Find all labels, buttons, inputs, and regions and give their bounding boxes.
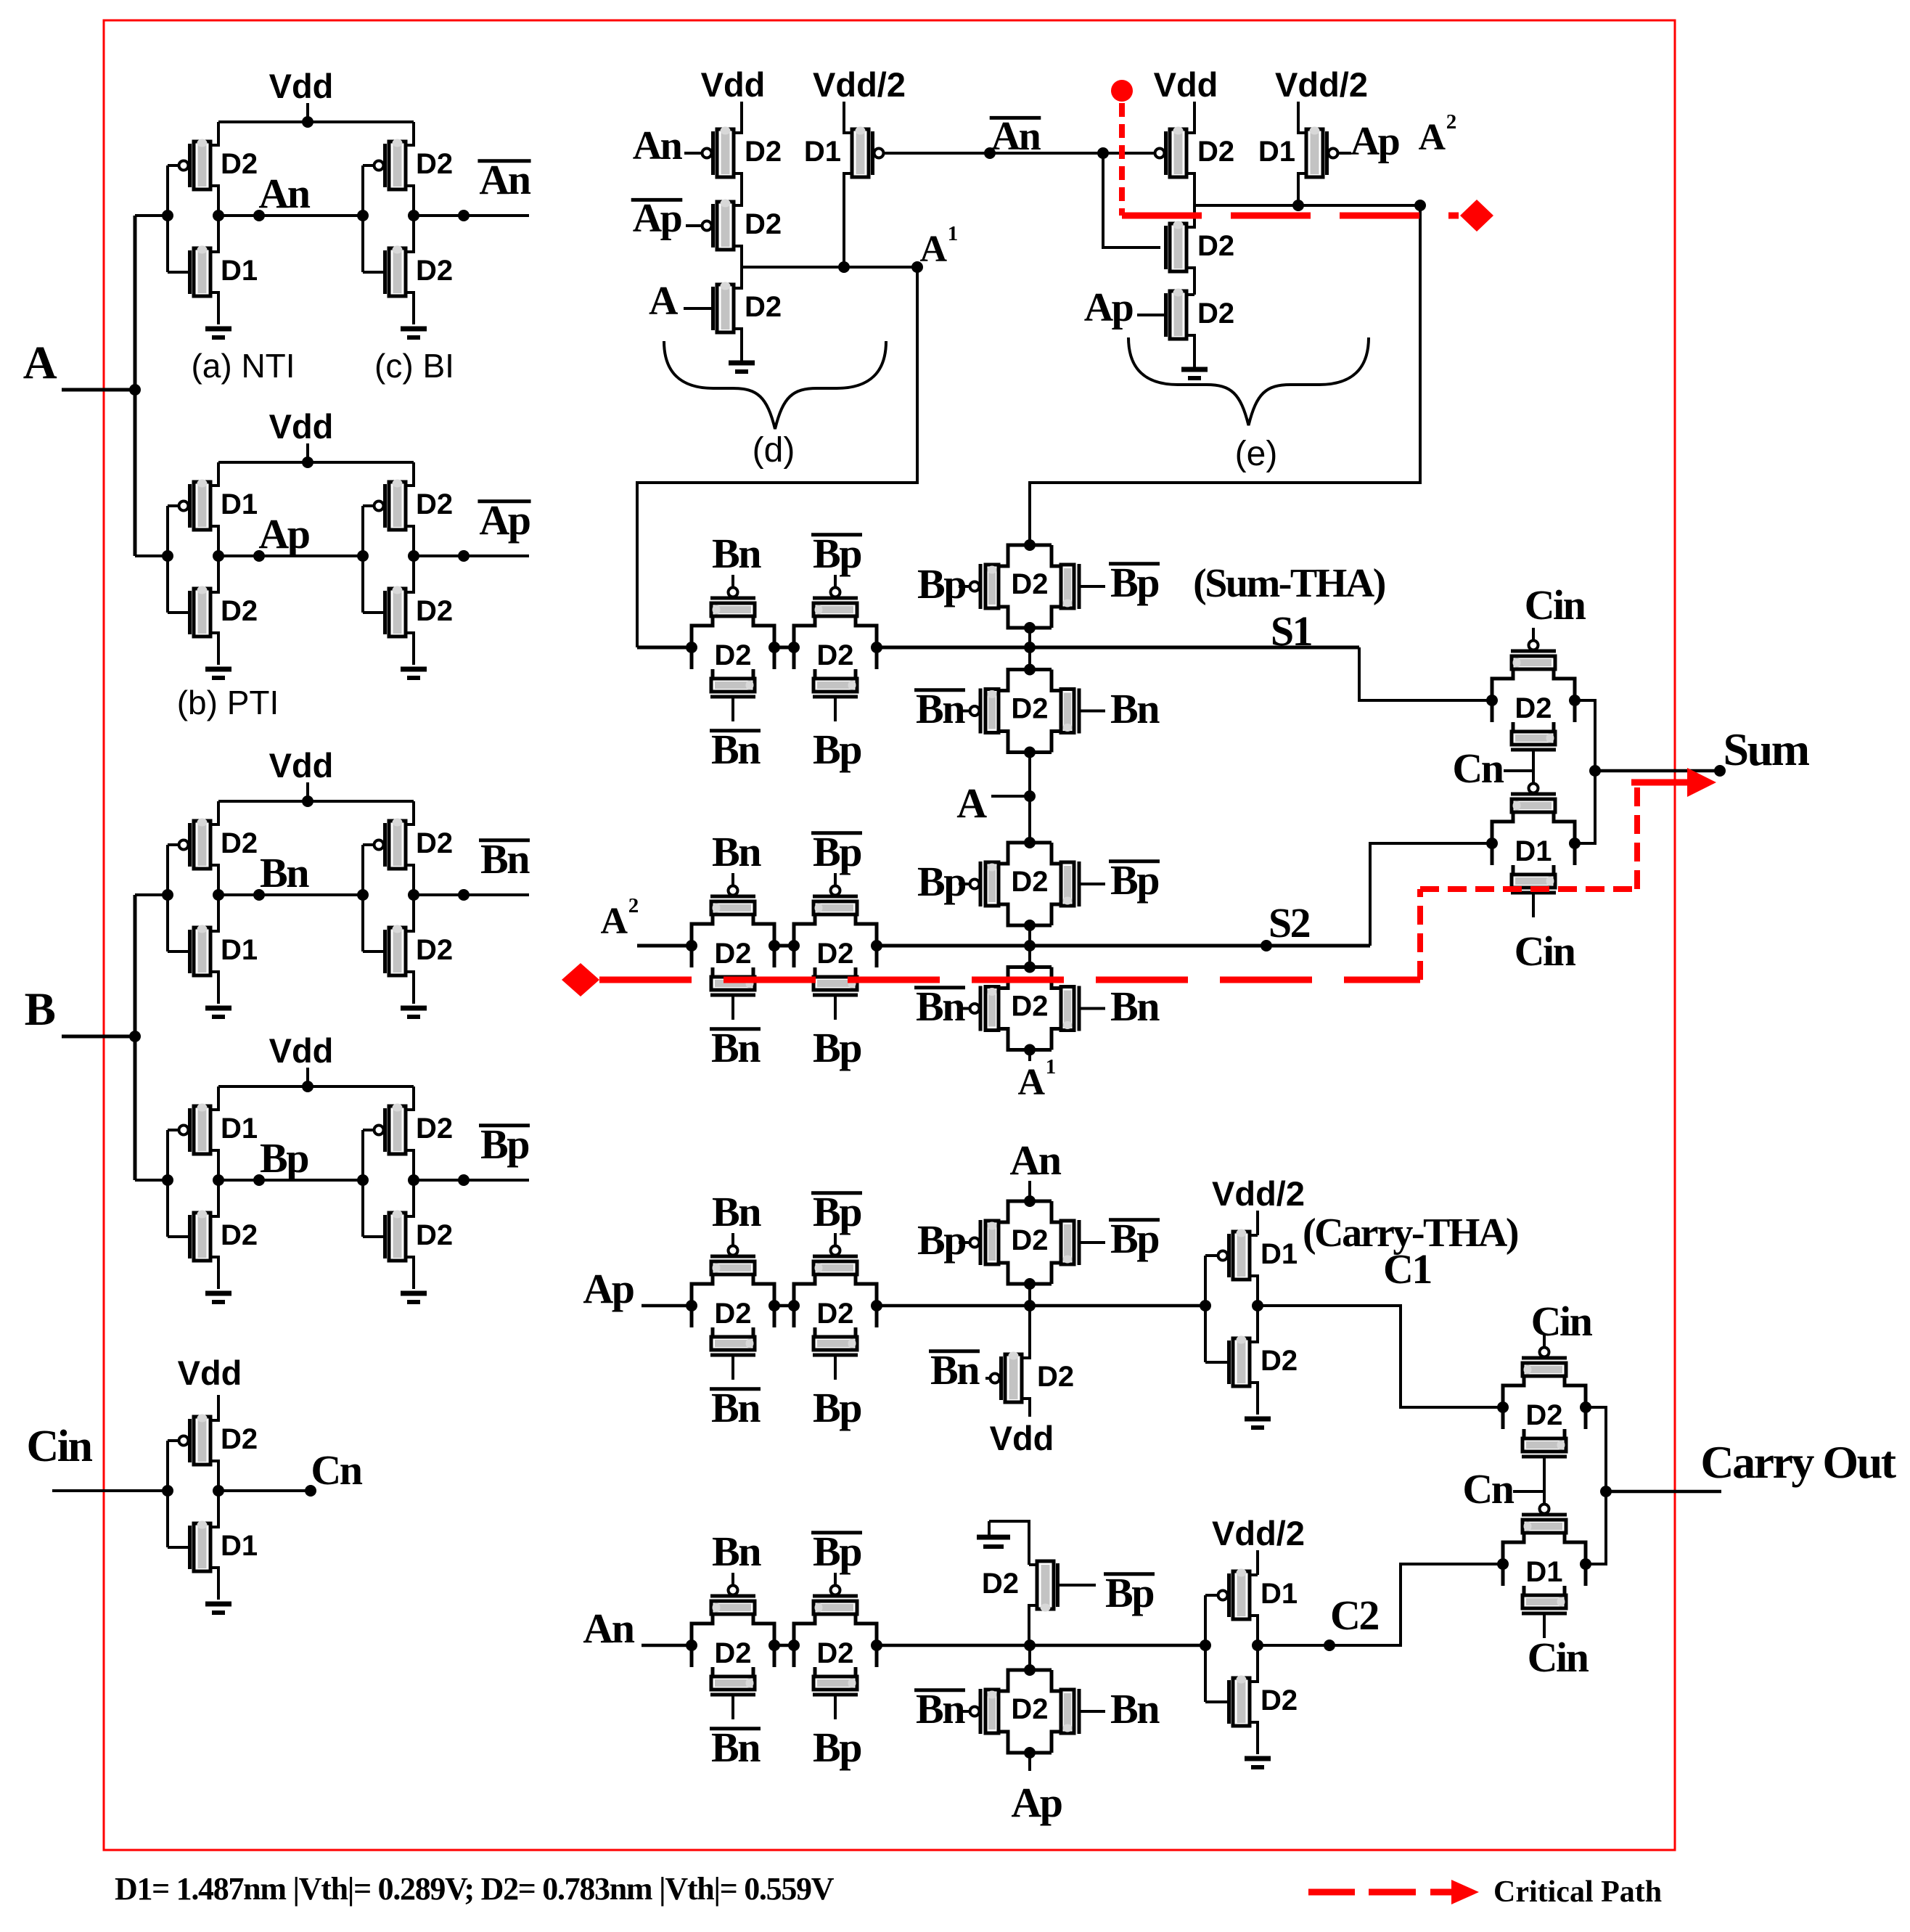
svg-text:Bp: Bp <box>1105 1569 1153 1616</box>
svg-text:(d): (d) <box>753 431 795 470</box>
transistor pMOS D1 section e right <box>1306 129 1323 177</box>
wire gate trunk PTI A right inverter <box>361 506 364 613</box>
svg-text:Bn: Bn <box>1110 685 1160 732</box>
transistor nMOS D1 NTI-BI B left inverter <box>194 928 210 975</box>
transistor pMOS D1 C1 inverter <box>1233 1232 1250 1280</box>
svg-text:D2: D2 <box>745 291 782 323</box>
transistor pMOS D2 NTI-BI B right inverter <box>389 821 406 869</box>
wire gate trunk C1 inverter <box>1204 1256 1207 1362</box>
transmission gate TG2 D2 gates Bp-bar/Bp S1 row <box>794 616 815 669</box>
transmission gate TG4 D2 gates Bp-bar/Bp S2 row <box>794 914 815 967</box>
svg-text:D2: D2 <box>816 1298 853 1330</box>
legend critical path dashes <box>1308 1889 1355 1896</box>
transmission gate TGa D2 gates Bp/Bp-bar vertical <box>999 545 1052 566</box>
svg-text:Bn: Bn <box>260 849 309 896</box>
wire A trunk <box>134 216 137 556</box>
node An <box>218 214 363 217</box>
wire TGg to C1 row <box>1028 1284 1031 1306</box>
transistor nMOS D2 middle section e <box>1170 224 1186 271</box>
wire gate trunk PTI A left inverter <box>166 506 169 613</box>
svg-text:Bp: Bp <box>260 1134 308 1182</box>
ground section d <box>729 361 755 366</box>
svg-text:A: A <box>956 779 987 827</box>
svg-text:C1: C1 <box>1383 1245 1431 1293</box>
svg-text:2: 2 <box>1446 110 1456 134</box>
inverter C2 Vdd/2 <box>1256 1550 1259 1575</box>
svg-text:Ap: Ap <box>258 510 308 557</box>
node Bn output <box>414 893 529 896</box>
power Vdd/2 section d <box>843 102 845 134</box>
transmission gate TG3 D2 gates Bn/Bn-bar S2 row <box>692 914 713 967</box>
svg-text:A: A <box>600 901 628 942</box>
svg-text:Vdd: Vdd <box>269 746 334 785</box>
svg-text:D2: D2 <box>1011 693 1048 725</box>
svg-text:1: 1 <box>1046 1055 1055 1078</box>
svg-text:An: An <box>258 170 310 217</box>
svg-text:D2: D2 <box>1037 1361 1074 1393</box>
wire S1 row <box>637 646 692 650</box>
svg-text:D2: D2 <box>221 1219 258 1251</box>
critical path dashed vertical S2 to Sum jog <box>1417 889 1423 980</box>
wire S1 to Cin TG <box>1359 647 1492 700</box>
critical path dashed vertical from start <box>1119 103 1125 216</box>
svg-text:Bp: Bp <box>917 560 965 607</box>
svg-text:Bp: Bp <box>813 1188 861 1235</box>
svg-text:D2: D2 <box>221 1423 258 1455</box>
svg-text:Ap: Ap <box>633 196 681 241</box>
svg-text:2: 2 <box>628 894 639 917</box>
wire gate trunk Cin inverter <box>166 1441 169 1547</box>
svg-text:Cin: Cin <box>1528 1634 1589 1681</box>
wire gate trunk NTI-BI A left inverter <box>166 165 169 272</box>
transistor pMOS D2 PTI A right inverter <box>389 482 406 530</box>
critical path start dot <box>1111 80 1133 102</box>
svg-text:Cin: Cin <box>27 1422 93 1471</box>
svg-text:(c) BI: (c) BI <box>374 347 454 385</box>
svg-text:Ap: Ap <box>1084 285 1133 330</box>
transistor nMOS D2 PTI B right inverter <box>389 1213 406 1261</box>
svg-text:Bp: Bp <box>813 530 861 577</box>
svg-text:An: An <box>479 156 530 203</box>
svg-text:Bp: Bp <box>813 828 861 875</box>
ground NTI-BI A right inverter <box>401 327 427 332</box>
wire Vdd rail NTI-BI B <box>218 800 414 803</box>
wire TGd to A1 <box>1028 1050 1031 1062</box>
svg-text:Bn: Bn <box>711 1024 761 1071</box>
svg-text:D2: D2 <box>1525 1399 1562 1431</box>
svg-text:D2: D2 <box>745 136 782 168</box>
wire An to TGg <box>1028 1181 1031 1201</box>
wire gate trunk NTI-BI B right inverter <box>361 845 364 951</box>
transistor nMOS D2 PTI B left inverter <box>194 1213 210 1261</box>
node Bn <box>218 893 363 896</box>
wire ground to transistor <box>989 1521 1029 1565</box>
power Vdd PTI A <box>306 443 309 462</box>
svg-text:Bp: Bp <box>1110 856 1158 904</box>
svg-text:Vdd: Vdd <box>269 67 334 105</box>
svg-text:Vdd: Vdd <box>701 65 766 104</box>
transmission gate TGi D2 gate Cin Carry output <box>1503 1376 1524 1429</box>
svg-text:Bn: Bn <box>1110 1685 1160 1732</box>
transmission gate TGf D1 gate Cn/Cin Sum output <box>1492 812 1513 865</box>
svg-text:A: A <box>649 279 679 324</box>
svg-text:Vdd/2: Vdd/2 <box>1275 65 1368 104</box>
svg-text:D2: D2 <box>1011 866 1048 898</box>
ground NTI-BI B right inverter <box>401 1006 427 1011</box>
svg-text:D2: D2 <box>416 1219 453 1251</box>
transistor nMOS D2 PTI A right inverter <box>389 589 406 637</box>
wire Vdd rail PTI A <box>218 461 414 464</box>
wire An-bar branch to lower gate <box>1103 153 1160 247</box>
transistor nMOS D2 gate Ap section e <box>1170 291 1186 339</box>
svg-text:Cin: Cin <box>1515 928 1576 975</box>
svg-text:B: B <box>25 983 55 1036</box>
svg-text:Bp: Bp <box>813 1724 861 1771</box>
transmission gate TGg D2 gates Bp/Bp-bar vertical Carry <box>999 1201 1052 1222</box>
svg-text:(e): (e) <box>1235 435 1278 473</box>
svg-text:C2: C2 <box>1330 1592 1378 1639</box>
svg-text:An: An <box>583 1605 634 1652</box>
svg-text:D2: D2 <box>714 1298 751 1330</box>
wire Sum output junction <box>1575 700 1595 843</box>
transmission gate TGc D2 gates Bp/Bp-bar vertical <box>999 843 1052 864</box>
wire gate trunk PTI B right inverter <box>361 1130 364 1237</box>
svg-text:Cin: Cin <box>1525 581 1586 629</box>
ground C2 inverter <box>1245 1756 1271 1761</box>
svg-text:Bp: Bp <box>813 1384 861 1431</box>
ground NTI-BI B left inverter <box>205 1006 231 1011</box>
wire input A <box>62 388 135 392</box>
svg-text:D2: D2 <box>221 148 258 180</box>
critical path dashed A2 segment <box>1122 213 1459 219</box>
transistor nMOS D1 NTI-BI A left inverter <box>194 248 210 296</box>
wire Carry output junction <box>1586 1407 1606 1564</box>
transmission gate TG1 D2 gates Bn/Bn-bar S1 row <box>692 616 713 669</box>
node Bp output <box>414 1179 529 1182</box>
transistor pMOS D1 section d right <box>852 129 869 177</box>
wire Carry Out output <box>1606 1490 1721 1494</box>
svg-text:Bn: Bn <box>712 1188 761 1235</box>
ground section e <box>1181 367 1208 372</box>
ground PTI B left inverter <box>205 1291 231 1296</box>
svg-text:Cin: Cin <box>1531 1298 1593 1345</box>
svg-text:Bn: Bn <box>930 1346 980 1393</box>
svg-text:Bn: Bn <box>1110 983 1160 1030</box>
transistor pMOS D1 PTI B left inverter <box>194 1106 210 1154</box>
svg-text:Cn: Cn <box>1462 1465 1514 1513</box>
wire gate trunk PTI B left inverter <box>166 1130 169 1237</box>
svg-text:D2: D2 <box>1011 1224 1048 1256</box>
svg-text:Ap: Ap <box>479 496 529 544</box>
transistor nMOS D2 NTI-BI B right inverter <box>389 928 406 975</box>
node Bp <box>218 1179 363 1182</box>
power Vdd NTI-BI A <box>306 103 309 122</box>
critical path dashed vertical to Sum arrow <box>1634 787 1640 889</box>
svg-text:S2: S2 <box>1268 899 1310 946</box>
power Vdd section e <box>1193 102 1196 134</box>
transmission gate TGj D1 gate Cn/Cin Carry output <box>1503 1533 1524 1586</box>
svg-text:(b) PTI: (b) PTI <box>177 684 279 721</box>
svg-text:Bn: Bn <box>711 1384 761 1431</box>
svg-text:D2: D2 <box>416 148 453 180</box>
svg-text:Bp: Bp <box>813 1024 861 1071</box>
power Vdd Cin inverter <box>217 1395 220 1418</box>
transmission gate TG8 D2 gates Bp-bar/Bp C2 row <box>794 1614 815 1667</box>
power Vdd NTI-BI B <box>306 782 309 801</box>
svg-text:D2: D2 <box>1197 298 1234 329</box>
svg-text:D2: D2 <box>714 1637 751 1669</box>
wire An-bar net <box>884 152 1155 155</box>
node Ap <box>218 554 363 557</box>
svg-text:An: An <box>991 114 1041 159</box>
wire Sum output <box>1595 769 1720 773</box>
ground C1 inverter <box>1245 1417 1271 1422</box>
svg-text:D2: D2 <box>1515 692 1552 724</box>
transistor pMOS D2 Cin inverter <box>194 1417 210 1465</box>
power Vdd section d <box>740 102 743 134</box>
wire TGb to node A <box>1028 753 1031 843</box>
transistor pMOS D2 NTI-BI A right inverter <box>389 142 406 189</box>
svg-text:A: A <box>1418 117 1446 158</box>
brace section e <box>1128 337 1369 425</box>
legend critical path arrow <box>1430 1889 1455 1896</box>
svg-text:Bn: Bn <box>916 983 965 1030</box>
svg-text:D2: D2 <box>1197 136 1234 168</box>
wire TGc to S2 <box>1028 925 1031 967</box>
ground PTI A left inverter <box>205 667 231 672</box>
svg-text:Vdd: Vdd <box>178 1354 242 1392</box>
transistor pMOS D2 gate An section d <box>717 129 734 177</box>
svg-text:Bn: Bn <box>480 835 530 883</box>
svg-text:Vdd/2: Vdd/2 <box>813 65 906 104</box>
svg-text:S1: S1 <box>1271 607 1311 655</box>
svg-text:D2: D2 <box>416 255 453 287</box>
svg-text:D2: D2 <box>416 488 453 520</box>
svg-text:A: A <box>23 337 57 389</box>
svg-text:Bn: Bn <box>712 530 761 577</box>
wire S2 row <box>637 944 692 948</box>
wire C2 row <box>642 1644 692 1647</box>
svg-text:D2: D2 <box>221 595 258 627</box>
svg-text:1: 1 <box>948 222 957 245</box>
svg-text:D1: D1 <box>221 1113 258 1145</box>
transmission gate TGb D2 gates Bn-bar/Bn vertical <box>999 670 1052 691</box>
svg-text:D1: D1 <box>1258 136 1295 168</box>
ground NTI-BI A left inverter <box>205 327 231 332</box>
svg-text:Bp: Bp <box>917 858 965 905</box>
ground PTI B right inverter <box>401 1291 427 1296</box>
wire C1 row <box>642 1304 692 1308</box>
svg-text:D1: D1 <box>1261 1578 1298 1610</box>
ground PTI A right inverter <box>401 667 427 672</box>
ground flipped above Bp-bar transistor <box>988 1521 991 1536</box>
critical path long dash S2 segment <box>599 977 1420 983</box>
svg-text:D1: D1 <box>1261 1238 1298 1270</box>
transistor nMOS D2 gate Bn-bar below C1 row <box>1005 1354 1022 1402</box>
svg-text:(a) NTI: (a) NTI <box>191 347 295 385</box>
svg-text:A: A <box>919 229 947 270</box>
svg-text:Bn: Bn <box>712 1528 761 1575</box>
critical path dashed horizontal jog <box>1420 886 1637 892</box>
wire Cn gate link Carry <box>1543 1457 1546 1507</box>
svg-text:Bn: Bn <box>711 726 761 773</box>
svg-text:An: An <box>1009 1137 1061 1184</box>
critical path Sum arrow <box>1631 779 1691 786</box>
svg-text:Bn: Bn <box>712 828 761 875</box>
svg-text:D2: D2 <box>816 1637 853 1669</box>
svg-text:Sum: Sum <box>1723 724 1810 775</box>
svg-text:D1: D1 <box>221 934 258 966</box>
svg-text:D2: D2 <box>416 934 453 966</box>
svg-text:D2: D2 <box>416 595 453 627</box>
svg-text:D2: D2 <box>416 1113 453 1145</box>
transistor pMOS D2 gate An-bar section e <box>1170 129 1186 177</box>
wire S2 to Cin TG D1 <box>1370 843 1492 946</box>
wire B trunk <box>134 895 137 1180</box>
svg-text:Bp: Bp <box>1110 559 1158 606</box>
svg-text:D2: D2 <box>1261 1345 1298 1377</box>
transistor nMOS D2 gate Bp-bar above C2 row <box>1037 1561 1054 1609</box>
svg-text:Bp: Bp <box>917 1216 965 1264</box>
svg-text:D2: D2 <box>714 639 751 671</box>
transistor pMOS D2 NTI-BI A left inverter <box>194 142 210 189</box>
svg-text:D2: D2 <box>714 938 751 970</box>
svg-text:Vdd/2: Vdd/2 <box>1212 1514 1305 1552</box>
node Ap output <box>414 554 529 557</box>
node Cn output <box>218 1489 311 1492</box>
svg-text:Vdd/2: Vdd/2 <box>1212 1174 1305 1213</box>
transistor nMOS D2 C1 inverter <box>1233 1338 1250 1386</box>
transmission gate TG6 D2 gates Bp-bar/Bp C1 row <box>794 1274 815 1327</box>
power Vdd/2 section e <box>1297 102 1300 134</box>
svg-text:D1: D1 <box>804 136 841 168</box>
svg-text:Carry Out: Carry Out <box>1700 1436 1896 1488</box>
svg-text:Bp: Bp <box>480 1121 528 1168</box>
svg-text:D1= 1.487nm |Vth|= 0.289V; D2=: D1= 1.487nm |Vth|= 0.289V; D2= 0.783nm |… <box>115 1871 835 1907</box>
svg-text:Vdd: Vdd <box>1154 65 1218 104</box>
svg-text:(Sum-THA): (Sum-THA) <box>1193 561 1385 606</box>
critical path arrowhead A2 diamond <box>1460 200 1493 232</box>
wire TGa to S1 <box>1028 628 1031 669</box>
svg-text:D2: D2 <box>1011 1693 1048 1725</box>
wire gate trunk C2 inverter <box>1204 1595 1207 1702</box>
svg-text:D2: D2 <box>1011 991 1048 1023</box>
transistor nMOS D2 gate A section d <box>717 285 734 332</box>
transistor pMOS D1 C2 inverter <box>1233 1571 1250 1619</box>
ground Cin inverter <box>205 1602 231 1607</box>
svg-text:Cn: Cn <box>311 1446 362 1494</box>
node A1 and wire to Sum-THA <box>742 266 917 269</box>
wire C2 row to TGh <box>1028 1645 1031 1670</box>
svg-text:D2: D2 <box>416 827 453 859</box>
transistor nMOS D2 NTI-BI A right inverter <box>389 248 406 296</box>
transistor pMOS D2 gate Ap-bar section d <box>717 202 734 250</box>
inverter C1 Vdd/2 <box>1256 1211 1259 1235</box>
power Vdd PTI B <box>306 1068 309 1086</box>
svg-text:Bp: Bp <box>1110 1215 1158 1262</box>
svg-text:Bp: Bp <box>813 1528 861 1575</box>
svg-text:D2: D2 <box>1011 568 1048 600</box>
node C2 output wire <box>1252 1640 1263 1651</box>
transmission gate TGd D2 gates Bn-bar/Bn vertical lower <box>999 967 1052 988</box>
transistor nMOS D1 Cin inverter <box>194 1523 210 1571</box>
svg-text:Vdd: Vdd <box>990 1419 1054 1457</box>
svg-text:A: A <box>1017 1062 1045 1103</box>
node An output <box>414 214 529 217</box>
svg-text:An: An <box>633 123 683 168</box>
svg-text:Critical Path: Critical Path <box>1493 1875 1662 1909</box>
svg-text:Bn: Bn <box>916 685 965 732</box>
wire gate trunk NTI-BI B left inverter <box>166 845 169 951</box>
svg-text:Bn: Bn <box>916 1685 965 1732</box>
svg-text:Bp: Bp <box>813 726 861 773</box>
transmission gate TG7 D2 gates Bn/Bn-bar C2 row <box>692 1614 713 1667</box>
svg-text:D1: D1 <box>1515 835 1552 867</box>
svg-text:Vdd: Vdd <box>269 407 334 446</box>
svg-text:Cn: Cn <box>1452 745 1504 792</box>
svg-text:Bn: Bn <box>711 1724 761 1771</box>
node A2 row and wire to Sum-THA <box>1194 204 1420 207</box>
svg-text:D2: D2 <box>745 208 782 240</box>
critical path arrowhead S2 diamond left <box>562 963 599 996</box>
brace section d <box>664 341 886 429</box>
svg-text:D2: D2 <box>816 639 853 671</box>
red border frame <box>104 20 1675 1850</box>
wire TGh to Ap <box>1028 1753 1031 1771</box>
transistor nMOS D2 C2 inverter <box>1233 1678 1250 1726</box>
svg-text:D1: D1 <box>221 255 258 287</box>
svg-text:D1: D1 <box>1525 1556 1562 1588</box>
svg-text:D2: D2 <box>221 827 258 859</box>
svg-text:D2: D2 <box>982 1568 1019 1600</box>
transistor nMOS D2 PTI A left inverter <box>194 589 210 637</box>
svg-text:Ap: Ap <box>1350 119 1399 164</box>
transistor pMOS D2 NTI-BI B left inverter <box>194 821 210 869</box>
transmission gate TG5 D2 gates Bn/Bn-bar C1 row <box>692 1274 713 1327</box>
transistor pMOS D2 PTI B right inverter <box>389 1106 406 1154</box>
svg-text:Ap: Ap <box>583 1265 633 1312</box>
svg-text:D2: D2 <box>1197 230 1234 262</box>
wire input Cin <box>52 1489 168 1492</box>
svg-text:D2: D2 <box>816 938 853 970</box>
svg-text:D2: D2 <box>1261 1685 1298 1716</box>
svg-text:Ap: Ap <box>1011 1779 1061 1826</box>
svg-text:D1: D1 <box>221 488 258 520</box>
node C1 output wire <box>1252 1300 1263 1311</box>
wire gate trunk NTI-BI A right inverter <box>361 165 364 272</box>
transistor pMOS D1 PTI A left inverter <box>194 482 210 530</box>
transmission gate TGe D2 gate Cin Sum output <box>1492 669 1513 722</box>
wire Cn gate link Sum <box>1532 750 1535 784</box>
wire Vdd rail NTI-BI A <box>218 120 414 123</box>
svg-text:D1: D1 <box>221 1530 258 1562</box>
transmission gate TGh D2 gates Bn-bar/Bn vertical below C2 row <box>999 1670 1052 1691</box>
wire Vdd rail PTI B <box>218 1085 414 1088</box>
wire input B <box>62 1035 135 1039</box>
svg-text:Vdd: Vdd <box>269 1031 334 1070</box>
